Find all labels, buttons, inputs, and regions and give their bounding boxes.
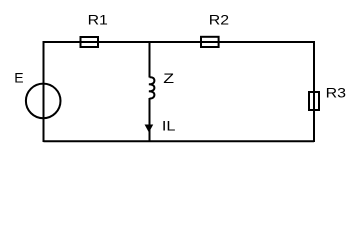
svg-text:R1: R1 [88,12,109,28]
wire: bottom return net [44,140,315,142]
wire: right branch through R3, x=314 [313,41,315,142]
wire: top net from source to R1, R1 to node A, node A to R2, R2 to R3 [44,41,315,43]
resistor R3 (vertical IEC box on right branch) [309,92,319,110]
svg-text:IL: IL [162,118,176,134]
wire: middle branch upper segment (node A down to inductor Z) [149,41,151,78]
resistor R1 (IEC box on top net) [81,37,99,47]
svg-text:R3: R3 [326,85,347,101]
current arrow IL (solid head pointing down on middle branch) [145,125,152,131]
resistor R2 (IEC box on top net) [201,37,219,47]
svg-text:E: E [14,70,23,86]
wire: left branch (E source branch), x=43.5 [43,41,45,142]
inductor Z (3-bump coil on middle branch) [149,77,155,98]
svg-text:R2: R2 [209,12,230,28]
svg-text:Z: Z [163,70,174,86]
wire: middle branch lower segment (inductor Z down to bottom net) [149,98,151,142]
voltage source E (circle, wire passes through) [26,84,61,119]
